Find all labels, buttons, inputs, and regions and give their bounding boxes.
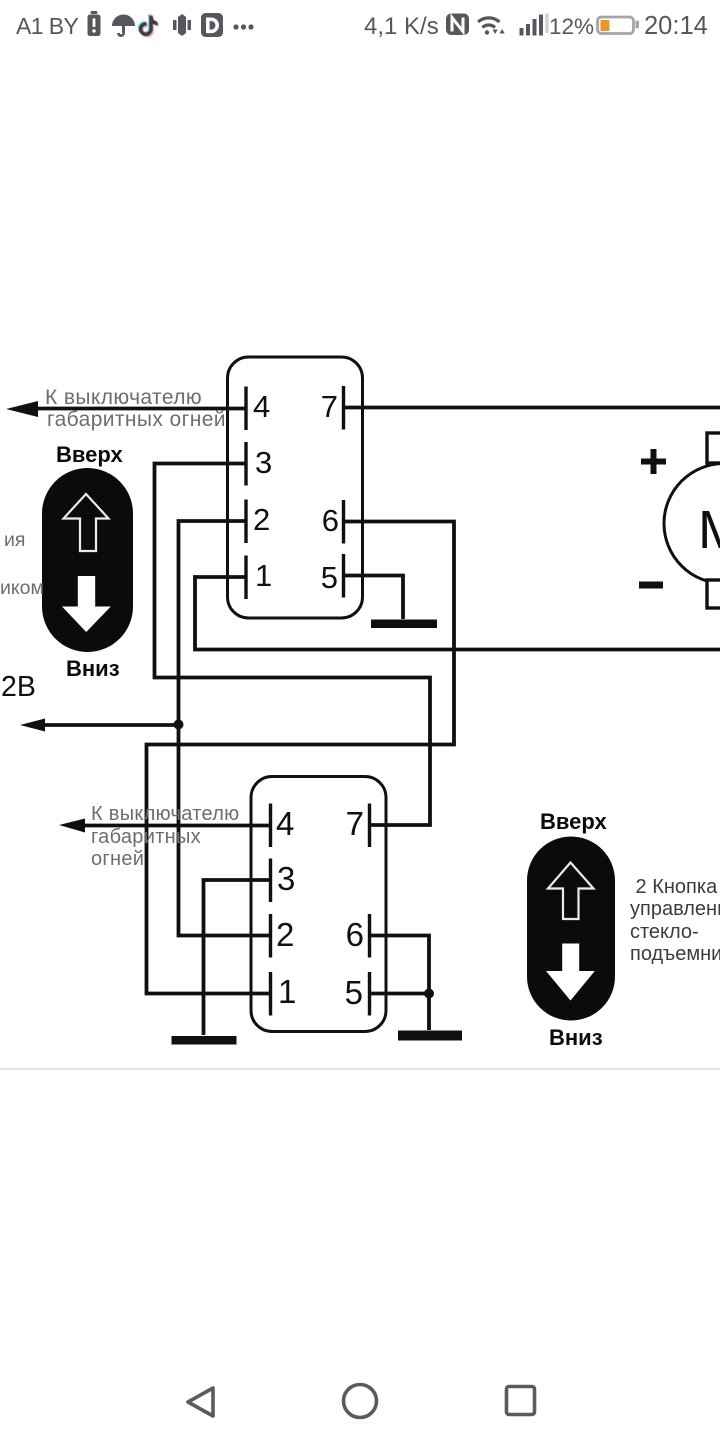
wire X1 pin5 to ground <box>343 576 403 620</box>
svg-text:4: 4 <box>276 805 294 842</box>
notification icon tiktok <box>139 14 158 35</box>
junction node +12V / X1 pin2 <box>174 720 184 730</box>
label Up (SW2) <box>540 809 607 835</box>
svg-text:M: M <box>698 500 720 560</box>
button SW2 up arrow <box>548 863 594 920</box>
svg-text:3: 3 <box>255 445 272 480</box>
svg-text:2: 2 <box>253 502 270 537</box>
photo bottom separator <box>0 1068 720 1070</box>
svg-text:5: 5 <box>345 974 363 1011</box>
svg-text:7: 7 <box>321 389 338 424</box>
label fragment "иком" (button 1 caption) <box>0 577 44 600</box>
svg-text:7: 7 <box>346 805 364 842</box>
X1 pin numbers <box>253 389 339 595</box>
label fragment "ия" (button 1 caption) <box>4 529 25 552</box>
wifi icon <box>478 18 505 35</box>
wire +12V feed arrow <box>42 723 179 727</box>
wire X2 pin3 to ground <box>204 880 270 1035</box>
X2 pin numbers <box>276 805 364 1011</box>
svg-text:2: 2 <box>276 916 294 953</box>
motor minus label <box>639 582 663 589</box>
button SW1 up arrow <box>64 494 109 551</box>
label Down (SW2) <box>549 1025 603 1051</box>
label to marker-light switch (lower) <box>91 803 239 826</box>
button SW1 down arrow <box>62 576 111 632</box>
button SW2 body <box>527 837 615 1021</box>
label Down (SW1) <box>66 656 120 682</box>
wire X1 pin6 to X2 pin1 <box>147 522 455 994</box>
ground G2 (X2 pin3) <box>172 1036 237 1045</box>
svg-text:6: 6 <box>322 503 339 538</box>
wire X1 pin3 to X2 pin7 <box>155 464 431 826</box>
notification icon D app <box>201 13 223 37</box>
motor M1 top terminal <box>707 433 720 463</box>
signal bars <box>520 14 549 36</box>
X2 pin ticks left 4,3,2,1 <box>269 804 272 848</box>
ground G3 (X2 pin5) <box>398 1031 462 1041</box>
wire X2 pin4 to marker-light arrow <box>80 824 269 828</box>
X1 pin ticks right 7,6,5 <box>342 386 345 430</box>
junction node X2 pin5/pin6 <box>424 989 434 999</box>
label button 2 caption <box>630 876 720 965</box>
motor plus label <box>641 449 666 474</box>
wire X1 pin2 to X2 pin2 (+12V rail) <box>179 521 270 936</box>
label Up (SW1) <box>56 442 123 468</box>
wire X1 pin7 to motor plus <box>343 406 720 410</box>
wire X2 pin5 to ground <box>368 992 429 996</box>
notification icon hexagon app <box>173 14 191 36</box>
nav home circle <box>344 1385 377 1418</box>
wire X2 pin6 to pin5 junction <box>368 936 429 1031</box>
nav back triangle <box>188 1388 213 1416</box>
notification overflow dots <box>233 24 253 29</box>
svg-text:6: 6 <box>346 916 364 953</box>
motor M1 circle <box>664 464 720 584</box>
arrowhead to marker lights (upper) <box>6 401 38 417</box>
label +12V (fragment 2В) <box>1 671 36 704</box>
svg-text:1: 1 <box>255 558 272 593</box>
wire X1 pin4 to marker-light arrow <box>30 407 245 411</box>
connector X1 body <box>228 357 363 618</box>
NFC icon <box>446 14 469 36</box>
notification icon umbrella <box>112 14 135 37</box>
svg-text:3: 3 <box>277 860 295 897</box>
svg-text:1: 1 <box>278 973 296 1010</box>
button SW1 body <box>42 468 133 652</box>
button SW2 down arrow <box>546 944 595 1001</box>
notification icon battery-alert <box>88 11 101 36</box>
wire X1 pin1 to motor minus <box>195 577 720 650</box>
X1 pin ticks left 4,3,2,1 <box>246 386 370 1016</box>
svg-text:4: 4 <box>253 389 270 424</box>
arrowhead +12V feed <box>20 719 45 732</box>
nav recents square <box>507 1387 535 1415</box>
svg-text:5: 5 <box>321 560 338 595</box>
X2 pin ticks right 7,6,5 <box>368 804 371 848</box>
ground G1 (X1 pin5) <box>371 620 437 629</box>
label to marker-light switch (upper) <box>45 386 202 410</box>
motor M1 bottom terminal <box>707 580 720 608</box>
battery icon 12% <box>598 17 640 34</box>
connector X2 body <box>251 777 386 1032</box>
arrowhead to marker lights (lower) <box>59 819 85 833</box>
